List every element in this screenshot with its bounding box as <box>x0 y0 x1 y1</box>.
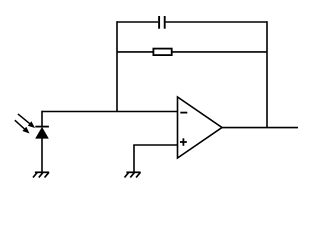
photodiode light arrows <box>15 114 35 134</box>
wire resistor left lead <box>117 51 153 53</box>
wire left feedback vertical <box>116 21 118 111</box>
op-amp inverting input marker <box>180 112 187 114</box>
op-amp noninverting input marker <box>180 138 187 146</box>
wire output <box>222 127 298 129</box>
capacitor C1 <box>159 16 165 29</box>
op-amp U1 <box>178 97 223 158</box>
wire photodiode cathode lead <box>41 111 43 127</box>
ground (noninverting input) <box>125 172 141 177</box>
resistor R1 <box>153 49 171 56</box>
photodiode D1 <box>35 127 49 139</box>
wire photodiode anode lead <box>41 138 43 172</box>
ground (photodiode) <box>33 172 49 177</box>
wire resistor right lead <box>172 51 267 53</box>
wire top feedback right segment <box>166 21 267 23</box>
wire noninverting input <box>134 145 178 172</box>
wire top feedback left segment <box>117 21 158 23</box>
wire inverting input node <box>42 111 178 113</box>
wire right feedback vertical <box>266 21 268 127</box>
